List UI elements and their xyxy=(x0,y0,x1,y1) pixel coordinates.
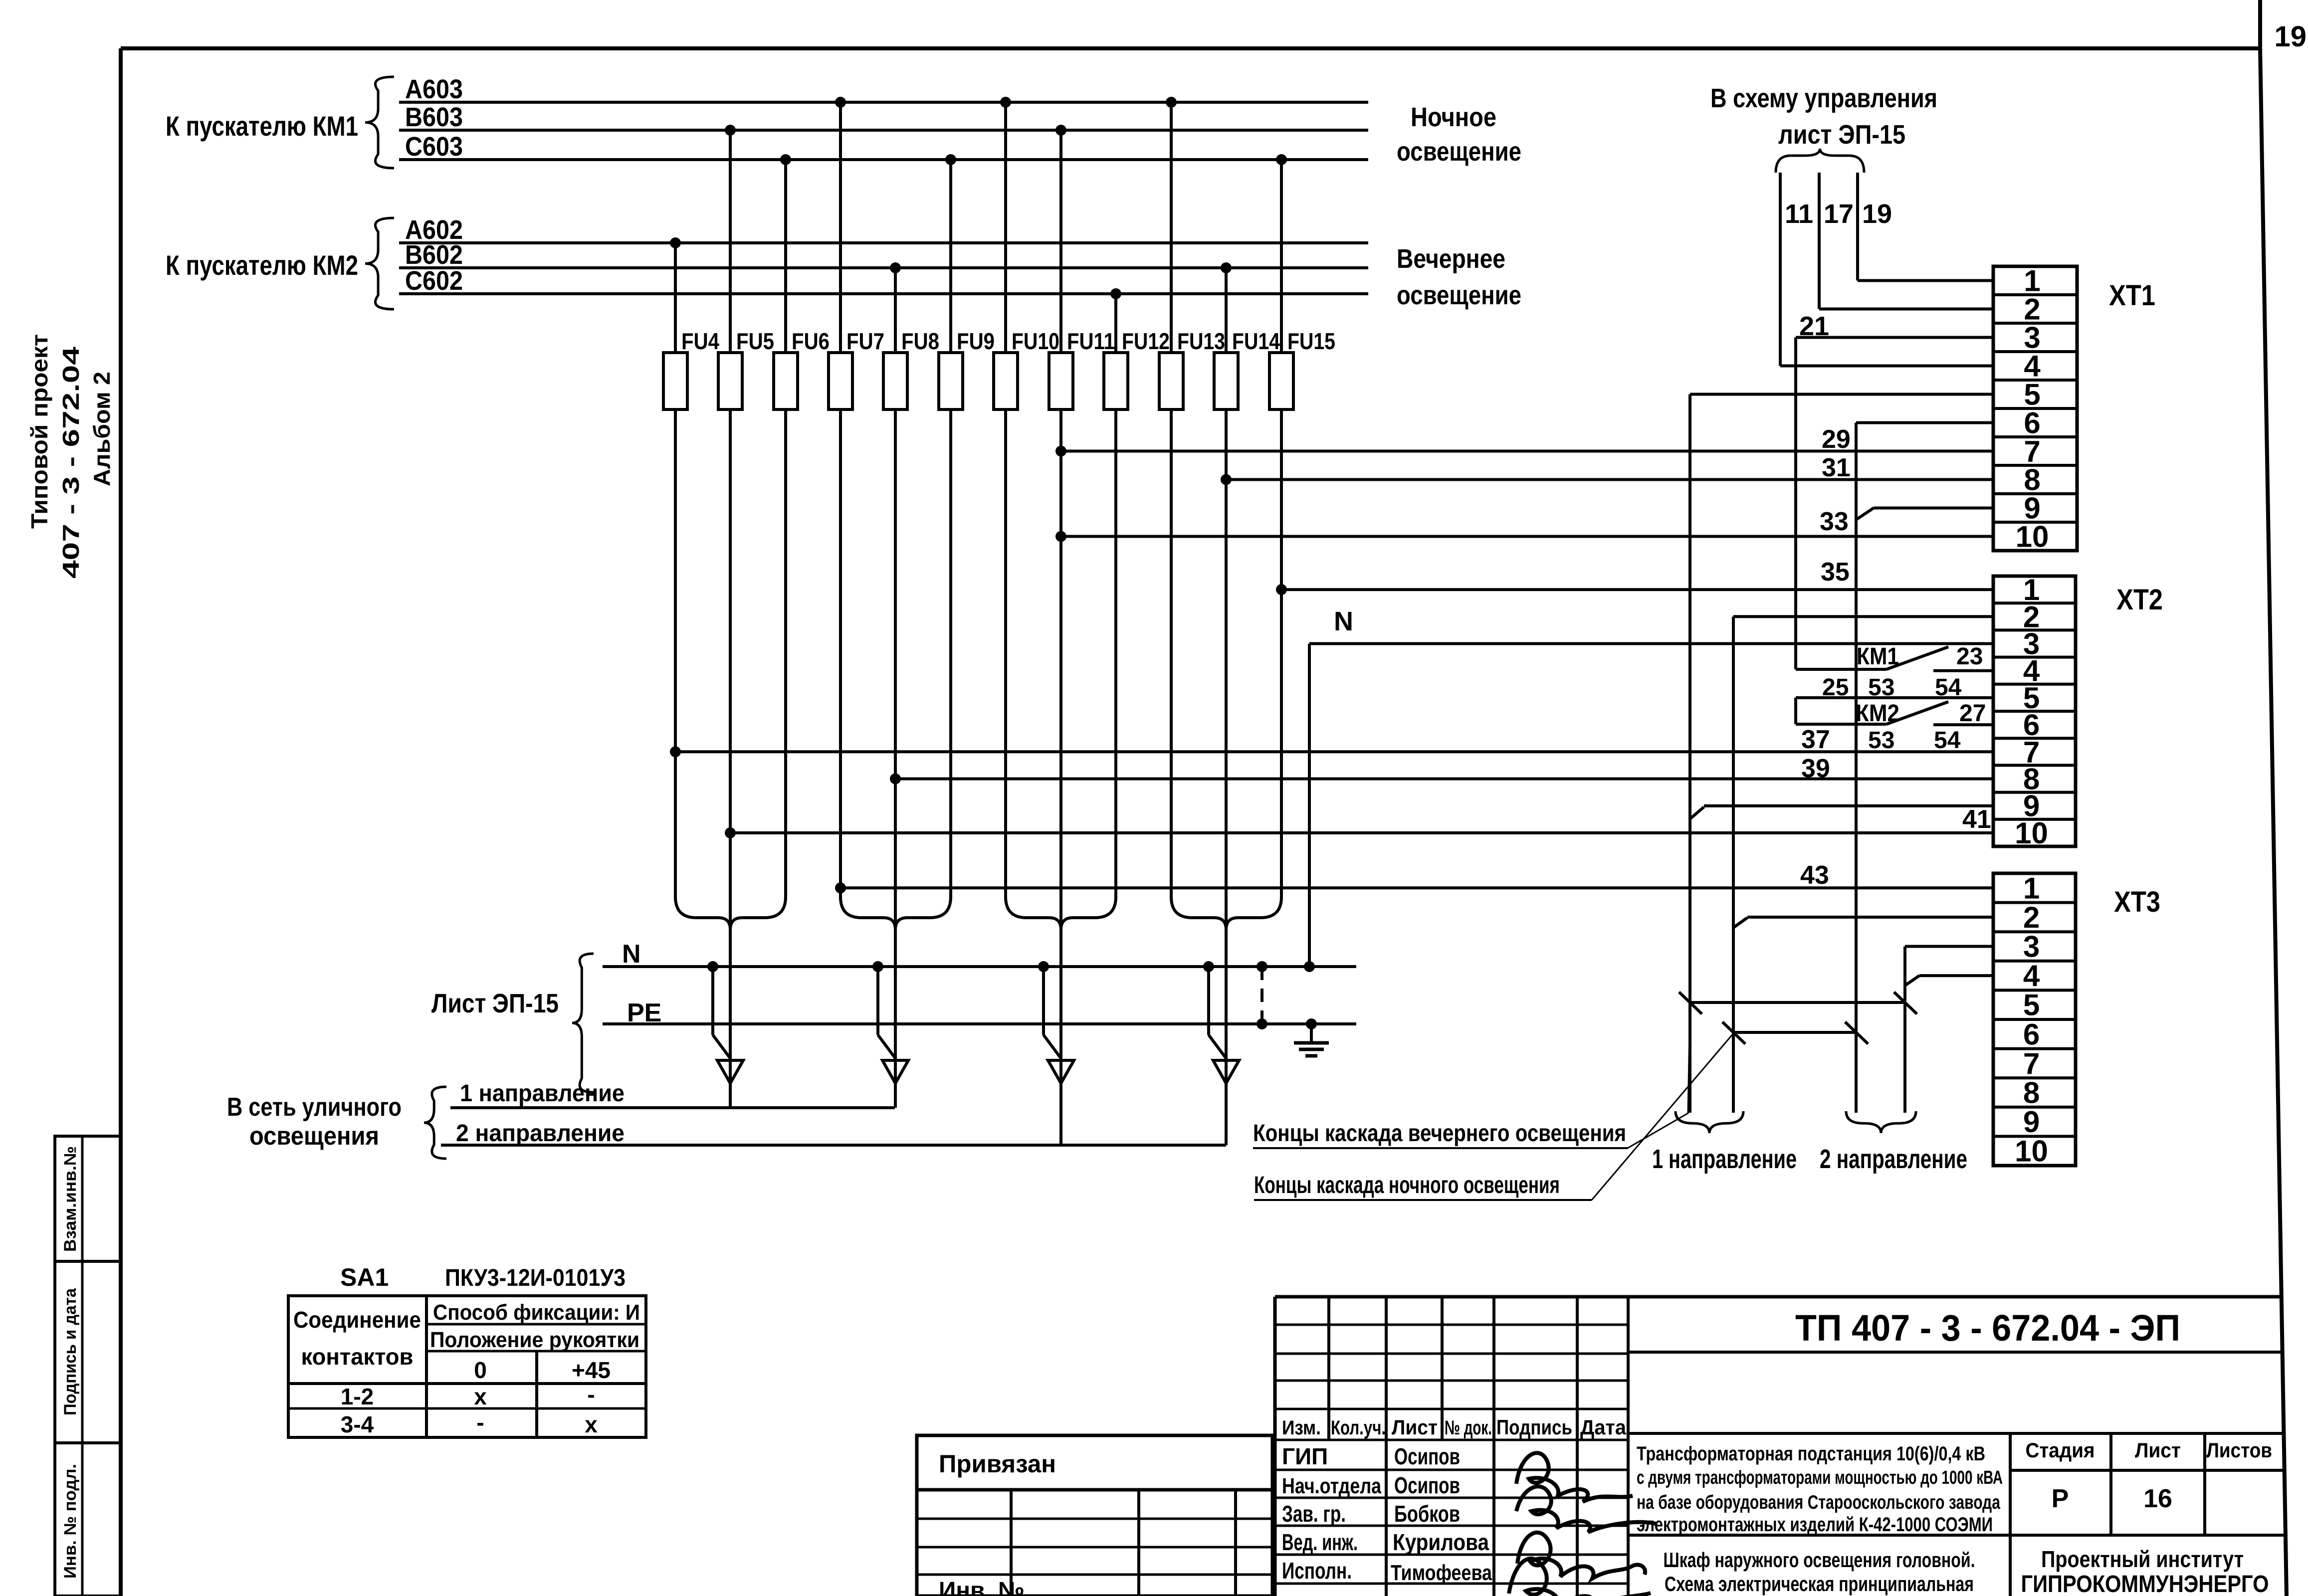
svg-text:FU12: FU12 xyxy=(1122,328,1170,354)
svg-text:41: 41 xyxy=(1962,805,1991,834)
svg-text:Шкаф наружного освещения голов: Шкаф наружного освещения головной. xyxy=(1664,1548,1975,1572)
bus wire A602 xyxy=(399,241,1368,244)
svg-text:407 - 3 - 672.04: 407 - 3 - 672.04 xyxy=(58,346,84,579)
svg-text:Проектный институт: Проектный институт xyxy=(2041,1546,2244,1572)
svg-text:К пускателю КМ1: К пускателю КМ1 xyxy=(166,110,358,142)
svg-text:FU9: FU9 xyxy=(957,328,995,354)
svg-text:31: 31 xyxy=(1822,453,1851,482)
wire 41 (FU5 to XT2:10) xyxy=(725,805,1993,838)
svg-text:Концы каскада ночного освещени: Концы каскада ночного освещения xyxy=(1254,1172,1560,1198)
svg-text:Инв. №: Инв. № xyxy=(939,1578,1025,1596)
left margin stamp boxes (Взам.инв.№ / Подпись и дата / Инв. № подл.) xyxy=(55,1136,121,1596)
svg-text:-: - xyxy=(587,1382,595,1407)
fuse FU12 with feeder wire (taps bus C602) xyxy=(1104,288,1170,899)
wire 11 (to XT1:4) xyxy=(1780,173,1993,366)
svg-text:27: 27 xyxy=(1959,700,1986,727)
svg-text:х: х xyxy=(585,1411,598,1437)
svg-text:В сеть уличного: В сеть уличного xyxy=(227,1093,402,1122)
wire V3: XT1:6 / XT1:9 cascade (2 направление) xyxy=(1856,423,1993,1113)
street feeder 4 N-tap and cable arrow xyxy=(1203,961,1239,1083)
bus wire B602 xyxy=(399,266,1368,269)
svg-text:ГИП: ГИП xyxy=(1282,1443,1328,1469)
svg-text:43: 43 xyxy=(1800,861,1829,890)
svg-text:10: 10 xyxy=(2015,816,2048,850)
svg-text:Привязан: Привязан xyxy=(939,1450,1056,1478)
wire V4: XT3:3 / XT3:4 cascade (2 направление) xyxy=(1905,947,1993,1113)
svg-text:Исполн.: Исполн. xyxy=(1282,1558,1352,1584)
svg-text:16: 16 xyxy=(2143,1484,2172,1513)
switch SA1 designation table xyxy=(288,1263,646,1437)
wire 25 (XT2:5 to KM2) xyxy=(1796,698,1993,724)
svg-text:FU6: FU6 xyxy=(792,328,830,354)
label: Ночное освещение xyxy=(1397,102,1521,167)
dashed PE jumper xyxy=(1257,961,1267,1029)
contact KM1 (aux contact 53-54, wires 23/25) xyxy=(1796,643,1993,701)
svg-text:3: 3 xyxy=(2023,930,2040,964)
svg-text:освещения: освещения xyxy=(249,1122,379,1151)
svg-text:FU11: FU11 xyxy=(1067,328,1115,354)
svg-text:Взам.инв.№: Взам.инв.№ xyxy=(61,1146,80,1252)
svg-text:23: 23 xyxy=(1956,643,1983,670)
svg-text:ПКУ3-12И-0101У3: ПКУ3-12И-0101У3 xyxy=(445,1265,626,1291)
brace for KM1 bus group xyxy=(365,77,394,168)
Привязан block xyxy=(917,1435,1272,1596)
wire H1: cascade end link (вечернее) xyxy=(1679,992,1917,1014)
svg-text:КМ1: КМ1 xyxy=(1857,643,1899,670)
svg-text:Подпись и дата: Подпись и дата xyxy=(61,1288,80,1415)
wire 33 (FU11 to XT1:10) xyxy=(1055,507,1993,542)
label: К пускателю КМ1 xyxy=(166,110,358,142)
svg-text:1 направление: 1 направление xyxy=(460,1080,625,1107)
svg-text:ТП 407 - 3 - 672.04 - ЭП: ТП 407 - 3 - 672.04 - ЭП xyxy=(1795,1307,2180,1349)
feeder merge bracket group 4 xyxy=(1171,897,1281,930)
svg-text:с двумя трансформаторами мощно: с двумя трансформаторами мощностью до 10… xyxy=(1637,1467,2003,1488)
svg-text:Осипов: Осипов xyxy=(1394,1472,1460,1498)
svg-text:Положение рукоятки: Положение рукоятки xyxy=(430,1328,639,1352)
svg-text:7: 7 xyxy=(2023,1047,2040,1080)
svg-text:Изм.: Изм. xyxy=(1282,1417,1321,1439)
institute name xyxy=(2021,1546,2269,1596)
svg-text:лист ЭП-15: лист ЭП-15 xyxy=(1778,120,1905,150)
title block roles and names xyxy=(1282,1443,1492,1585)
net label А602 xyxy=(405,215,463,245)
wire 39 (FU8 to XT2:8) xyxy=(890,754,1993,785)
svg-text:Инв. № подл.: Инв. № подл. xyxy=(61,1464,80,1579)
svg-text:33: 33 xyxy=(1820,507,1849,536)
svg-text:освещение: освещение xyxy=(1397,137,1521,167)
brace over control wires xyxy=(1776,149,1864,173)
signatures xyxy=(1509,1453,1656,1596)
terminal block XT1 xyxy=(1993,264,2155,554)
svg-text:1-2: 1-2 xyxy=(341,1384,374,1409)
svg-text:К пускателю КМ2: К пускателю КМ2 xyxy=(166,249,358,281)
svg-text:Зав. гр.: Зав. гр. xyxy=(1282,1501,1346,1527)
svg-text:3-4: 3-4 xyxy=(341,1411,374,1437)
svg-text:8: 8 xyxy=(2023,1076,2040,1110)
left margin project label: Типовой проект 407-3-672.04 Альбом 2 xyxy=(26,334,115,579)
sheet number 19 (top right corner) xyxy=(2274,20,2307,53)
fuse FU8 with feeder wire (taps bus B602) xyxy=(883,262,939,1108)
title block grid xyxy=(1275,1297,2286,1596)
svg-text:2 направление: 2 направление xyxy=(1820,1144,1967,1174)
street feeder 3 N-tap and cable arrow xyxy=(1038,961,1074,1083)
wire 19 (to XT1:1) xyxy=(1858,173,1993,281)
svg-text:10: 10 xyxy=(2015,1135,2048,1168)
svg-text:ХТ2: ХТ2 xyxy=(2116,584,2163,616)
wire 21 (XT1:3 down to KM1 contact) xyxy=(1796,311,1993,669)
svg-text:FU4: FU4 xyxy=(681,328,719,354)
wire 43 (FU7 to XT3:1) xyxy=(835,861,1993,893)
fuse FU7 with feeder wire (taps bus A603) xyxy=(829,97,884,899)
bus wire C602 xyxy=(399,292,1368,295)
label: Вечернее освещение xyxy=(1397,244,1521,310)
svg-text:А603: А603 xyxy=(405,74,463,104)
wire 2 направление (street line) xyxy=(441,1120,1226,1147)
wire 29 (FU11 to XT1:7) xyxy=(1055,425,1993,457)
svg-text:6: 6 xyxy=(2023,1017,2040,1051)
svg-text:Тимофеева: Тимофеева xyxy=(1391,1561,1492,1585)
terminal block XT2 xyxy=(1993,573,2163,850)
wire V1: XT1:5 / XT2:9 cascade (1 направление) xyxy=(1690,395,1993,1113)
fuse FU11 with feeder wire (taps bus B603) xyxy=(1049,125,1115,1145)
svg-text:19: 19 xyxy=(1862,199,1892,229)
svg-text:1 направление: 1 направление xyxy=(1652,1144,1797,1174)
bus wire B603 xyxy=(399,129,1368,132)
svg-text:21: 21 xyxy=(1799,311,1829,341)
fuse FU15 with feeder wire (taps bus C603) xyxy=(1269,154,1335,899)
stage/sheet cells xyxy=(2026,1438,2273,1513)
street feeder 1 N-tap and cable arrow xyxy=(707,961,743,1083)
svg-text:Альбом 2: Альбом 2 xyxy=(89,372,115,486)
document number ТП 407 - 3 - 672.04 - ЭП xyxy=(1795,1307,2180,1349)
ground symbol xyxy=(1294,1018,1329,1056)
svg-text:Стадия: Стадия xyxy=(2026,1438,2095,1462)
fuse FU13 with feeder wire (taps bus A603) xyxy=(1159,97,1225,899)
svg-text:Лист ЭП-15: Лист ЭП-15 xyxy=(431,989,559,1018)
contact KM2 (aux contact 53-54, wire 27) xyxy=(1796,700,1993,754)
svg-text:КМ2: КМ2 xyxy=(1856,700,1899,727)
svg-text:№ док.: № док. xyxy=(1445,1417,1492,1439)
wire 35 (FU15 to XT2:1) xyxy=(1276,558,1993,595)
feeder merge bracket group 2 xyxy=(840,897,951,930)
wire N (XT2:3 to N busbar) xyxy=(1304,606,1993,972)
svg-text:4: 4 xyxy=(2023,959,2040,993)
svg-text:FU8: FU8 xyxy=(901,328,939,354)
svg-text:электромонтажных изделий К-42-: электромонтажных изделий К-42-1000 СОЭМИ xyxy=(1637,1514,1993,1536)
net label В602 xyxy=(405,240,463,270)
svg-text:Схема электрическая принципиал: Схема электрическая принципиальная xyxy=(1665,1572,1974,1596)
wire 31 (FU14 to XT1:8) xyxy=(1221,453,1993,485)
svg-text:Трансформаторная подстанция 10: Трансформаторная подстанция 10(6)/0,4 кВ xyxy=(1637,1443,1985,1465)
net label В603 xyxy=(405,102,463,132)
svg-text:FU14: FU14 xyxy=(1232,328,1280,354)
svg-text:0: 0 xyxy=(474,1357,487,1383)
fuse FU4 with feeder wire (taps bus A602) xyxy=(663,237,719,899)
svg-text:17: 17 xyxy=(1824,199,1854,229)
svg-text:Ночное: Ночное xyxy=(1411,102,1496,132)
svg-text:Бобков: Бобков xyxy=(1394,1501,1460,1527)
svg-text:Способ фиксации: И: Способ фиксации: И xyxy=(433,1300,640,1325)
svg-text:Подпись: Подпись xyxy=(1496,1415,1572,1439)
feeder merge bracket group 1 xyxy=(675,897,786,930)
title block header texts xyxy=(1282,1415,1627,1439)
brace 2 направление (right) xyxy=(1820,1111,1967,1174)
label: В схему управления лист ЭП-15 xyxy=(1710,83,1937,150)
fuse FU10 with feeder wire (taps bus A603) xyxy=(994,97,1059,899)
svg-text:39: 39 xyxy=(1801,754,1830,783)
wire 37 (FU4 to XT2:7) xyxy=(670,725,1993,757)
svg-text:освещение: освещение xyxy=(1397,280,1521,310)
svg-text:контактов: контактов xyxy=(301,1344,414,1370)
svg-text:х: х xyxy=(474,1384,487,1409)
svg-text:ГИПРОКОММУНЭНЕРГО: ГИПРОКОММУНЭНЕРГО xyxy=(2021,1571,2269,1596)
brace for KM2 bus group xyxy=(365,218,394,309)
fuse FU5 with feeder wire (taps bus B603) xyxy=(718,125,774,1108)
svg-text:Концы каскада вечернего освеще: Концы каскада вечернего освещения xyxy=(1253,1120,1626,1147)
svg-text:9: 9 xyxy=(2023,1105,2040,1139)
svg-text:Лист: Лист xyxy=(1392,1415,1438,1439)
svg-text:Курилова: Курилова xyxy=(1393,1529,1489,1555)
svg-text:Осипов: Осипов xyxy=(1394,1443,1460,1469)
fuse FU14 with feeder wire (taps bus B602) xyxy=(1214,262,1280,1145)
svg-text:SA1: SA1 xyxy=(340,1263,389,1291)
wire V2: XT2:2 / XT3:2 cascade (1 направление) xyxy=(1733,616,1993,1113)
label: Лист ЭП-15 with brace xyxy=(431,954,594,1092)
terminal block XT3 xyxy=(1993,871,2160,1168)
svg-text:54: 54 xyxy=(1934,727,1961,754)
svg-text:19: 19 xyxy=(2274,20,2307,53)
N busbar xyxy=(603,940,1356,969)
svg-text:В603: В603 xyxy=(405,102,463,132)
net label А603 xyxy=(405,74,463,104)
svg-text:на базе оборудования Старооско: на базе оборудования Старооскольского за… xyxy=(1637,1492,2000,1513)
fuse FU6 with feeder wire (taps bus C603) xyxy=(774,154,830,899)
svg-text:53: 53 xyxy=(1868,727,1894,754)
bus wire C603 xyxy=(399,158,1368,161)
feeder merge bracket group 3 xyxy=(1006,897,1116,930)
svg-text:37: 37 xyxy=(1801,725,1830,754)
svg-text:Вечернее: Вечернее xyxy=(1397,244,1505,274)
svg-text:+45: +45 xyxy=(572,1357,611,1383)
svg-text:Соединение: Соединение xyxy=(293,1307,421,1333)
fuse FU9 with feeder wire (taps bus C603) xyxy=(939,154,995,899)
svg-text:Нач.отдела: Нач.отдела xyxy=(1282,1474,1381,1498)
svg-text:1: 1 xyxy=(2023,871,2040,905)
bus wire A603 xyxy=(399,101,1368,104)
svg-text:FU13: FU13 xyxy=(1177,328,1225,354)
svg-text:Типовой проект: Типовой проект xyxy=(26,334,52,529)
net label С602 xyxy=(405,266,463,296)
svg-text:11: 11 xyxy=(1785,199,1813,229)
street feeder 2 N-tap and cable arrow xyxy=(872,961,908,1083)
svg-text:5: 5 xyxy=(2023,989,2040,1022)
svg-text:Листов: Листов xyxy=(2206,1438,2272,1462)
svg-text:Дата: Дата xyxy=(1580,1415,1627,1439)
wire 17 (to XT1:2) xyxy=(1819,173,1993,309)
PE busbar xyxy=(603,998,1356,1027)
svg-text:С602: С602 xyxy=(405,266,463,296)
svg-text:35: 35 xyxy=(1821,558,1850,587)
svg-text:FU7: FU7 xyxy=(846,328,884,354)
svg-text:ХТ3: ХТ3 xyxy=(2114,886,2160,918)
svg-text:2 направление: 2 направление xyxy=(456,1120,625,1147)
object description text xyxy=(1637,1443,2003,1536)
svg-text:-: - xyxy=(476,1409,484,1435)
svg-text:FU15: FU15 xyxy=(1287,328,1335,354)
label: В сеть уличного освещения with brace xyxy=(227,1087,446,1159)
label: К пускателю КМ2 xyxy=(166,249,358,281)
svg-text:FU5: FU5 xyxy=(736,328,774,354)
svg-text:N: N xyxy=(1334,606,1353,636)
svg-text:С603: С603 xyxy=(405,132,463,162)
label: Концы каскада вечернего освещения xyxy=(1253,1003,1690,1148)
svg-text:10: 10 xyxy=(2016,520,2049,554)
svg-text:2: 2 xyxy=(2023,901,2040,934)
svg-text:Лист: Лист xyxy=(2135,1438,2181,1462)
sheet title xyxy=(1664,1548,1975,1596)
wire 1 направление (street line) xyxy=(450,1080,895,1108)
svg-text:ХТ1: ХТ1 xyxy=(2109,279,2155,312)
brace 1 направление (right) xyxy=(1652,1111,1797,1174)
net label С603 xyxy=(405,132,463,162)
wire H2: cascade end link (ночное) xyxy=(1722,1022,1868,1044)
svg-text:N: N xyxy=(622,940,641,969)
svg-text:FU10: FU10 xyxy=(1012,328,1059,354)
svg-text:Р: Р xyxy=(2052,1484,2069,1513)
svg-text:Кол.уч.: Кол.уч. xyxy=(1331,1417,1386,1439)
svg-text:29: 29 xyxy=(1822,425,1851,454)
svg-text:В схему управления: В схему управления xyxy=(1710,83,1937,113)
svg-text:Вед. инж.: Вед. инж. xyxy=(1282,1529,1358,1555)
label: Концы каскада ночного освещения xyxy=(1254,1033,1733,1200)
